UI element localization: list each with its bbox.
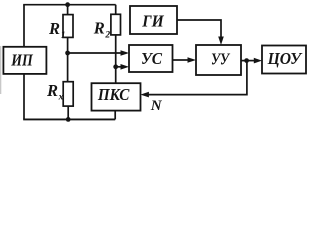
svg-text:R: R [46,81,58,100]
wire: IP bottom to bottom rail [23,74,25,120]
svg-text:УС: УС [141,49,163,68]
resistor Rx [63,82,73,106]
wire: IP top to top rail [23,5,25,47]
node B junction dot [65,51,70,56]
wire: node D to US input 2 (arrow) [116,66,122,68]
svg-text:N: N [150,98,163,114]
node: junction dot after UU [244,58,249,63]
wire: node B to US input 1 (arrow) [68,52,122,54]
wire: node B down to Rx top [67,53,69,82]
wire: US output to UU (arrow) [173,59,189,61]
resistor R2 [111,14,121,35]
wire: top rail [23,4,116,6]
svg-text:R: R [48,19,60,38]
svg-text:УУ: УУ [211,49,231,68]
wire: GI to UU top (arrow) [177,20,221,38]
wire: bottom rail up to PKS bottom [114,111,116,120]
block IP (power source) [3,47,46,74]
svg-text:R: R [93,19,105,38]
svg-text:x: x [58,93,64,103]
wire: R1 bottom to node B [67,37,69,53]
wire: R2 bottom to PKS top [115,35,117,83]
block GI (pulse generator) [130,6,177,34]
svg-text:ЦОУ: ЦОУ [267,49,303,68]
wire: UU output to TsOU (arrow) [241,60,255,62]
node: junction dot top rail / R1 [65,2,70,7]
wire: top rail down to R2 top [115,5,117,15]
block UU (control unit) [196,45,241,75]
wire: Rx bottom to bottom rail [67,106,69,119]
svg-text:ПКС: ПКС [97,85,130,104]
node D junction dot [113,64,118,69]
svg-text:ГИ: ГИ [141,12,164,31]
wire: feedback N from UU output down and left to PKS (arrow) [148,61,247,95]
svg-text:2: 2 [104,31,110,41]
block TsOU (digital readout) [262,46,306,74]
resistor R1 [63,15,73,38]
scan artifact left edge [0,46,1,94]
svg-text:1: 1 [61,31,66,41]
svg-text:ИП: ИП [10,51,33,70]
wire: dot to R1 top [67,5,69,15]
wire: bottom rail [23,118,115,120]
node: junction dot bottom rail / Rx [66,117,71,122]
block US (comparison device) [129,45,173,72]
block PKS (code-resistance converter) [92,83,141,110]
